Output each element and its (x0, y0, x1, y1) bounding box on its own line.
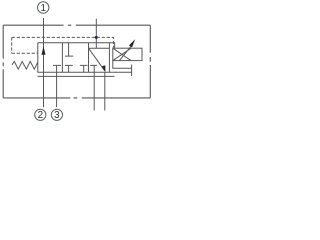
blocked port T (box3 bottom) (90, 65, 97, 72)
svg-text:2: 2 (38, 110, 43, 121)
blocked port T (box1 bottom) (53, 65, 61, 72)
wire below valve (38, 75, 115, 77)
diagonal flow arrowhead (102, 65, 106, 72)
spool position divider 1 (61, 43, 63, 73)
wire: port 1 line down through valve to port 2 (43, 18, 45, 107)
channel line in spool right box (89, 47, 110, 49)
diagonal flow path (spool right box) (89, 48, 105, 70)
spring (left actuator) (12, 61, 38, 69)
spool valve body envelope with top stub to relief valve (38, 43, 132, 73)
enclosure boundary (chain line) (3, 25, 150, 98)
relief valve V1 body (113, 48, 142, 60)
blocked port T hanging (box2 top) (65, 43, 73, 56)
spool position divider 2 (88, 43, 90, 73)
pilot line (dashed) to relief valve (12, 37, 114, 48)
port 2 circle (35, 109, 46, 120)
junction dot (95, 36, 98, 39)
relief valve X element (113, 48, 131, 60)
relief valve adjustment arrow shaft (119, 46, 131, 60)
relief valve drain with plug (113, 61, 132, 76)
wire: T stem down to port 3 (56, 72, 58, 107)
relief valve adjustment arrowhead (129, 39, 135, 47)
svg-text:1: 1 (40, 3, 45, 14)
pilot line (dashed) to spool left end (12, 37, 38, 53)
svg-text:3: 3 (54, 110, 60, 121)
flow arrowhead in spool left position box (42, 46, 46, 54)
drain line left (93, 72, 95, 110)
drain line right (104, 72, 106, 110)
blocked port T (box2 bottom right) (80, 65, 88, 72)
port 3 circle (51, 109, 62, 120)
pilot stub line above enclosure (95, 19, 97, 49)
blocked port T (box2 bottom left) (65, 65, 73, 72)
port 1 circle (38, 2, 49, 13)
